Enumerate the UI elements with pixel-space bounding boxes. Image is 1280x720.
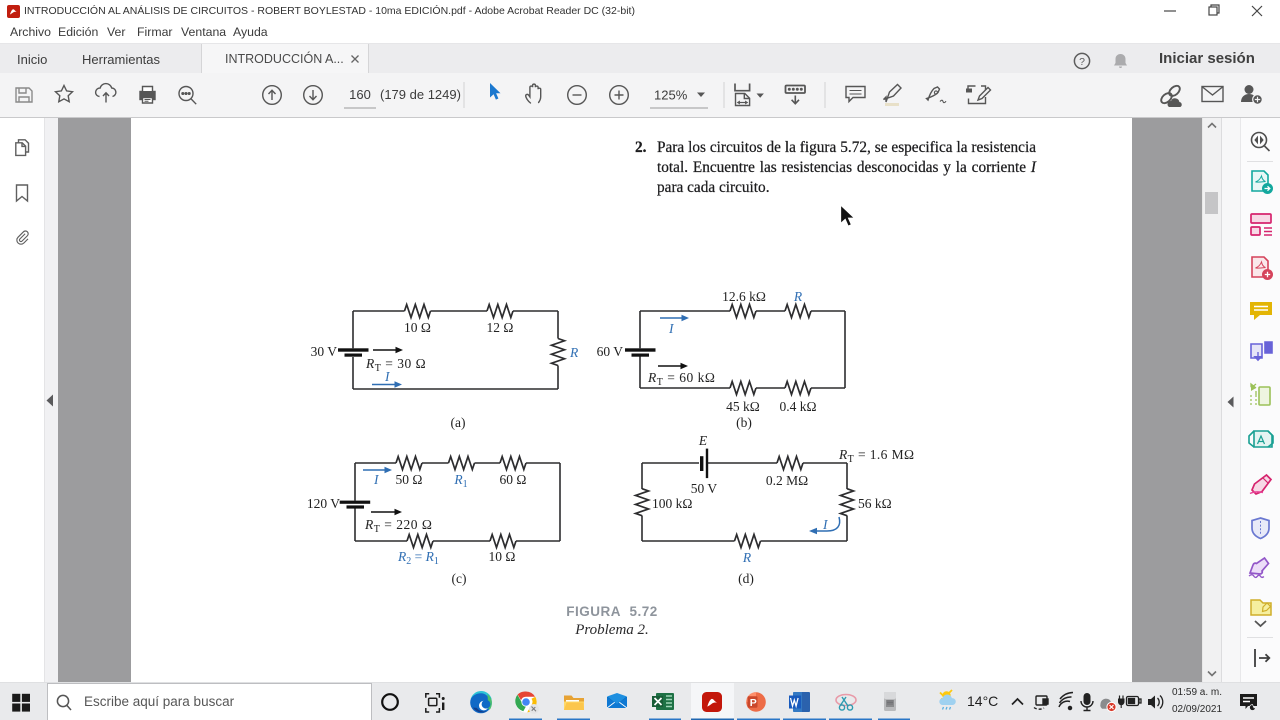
svg-text:I: I: [822, 517, 829, 532]
scan ocr icon: [1249, 431, 1273, 447]
svg-text:I: I: [384, 369, 391, 384]
powerpoint icon: [746, 692, 766, 712]
cloud upload icon: [96, 84, 116, 97]
select cursor (blue): [490, 83, 501, 100]
svg-text:RT = 30 Ω: RT = 30 Ω: [365, 356, 426, 374]
svg-text:(d): (d): [738, 571, 754, 586]
open panel icon: [1255, 649, 1269, 667]
wire right side (b): [844, 311, 846, 388]
search magnifier with dots: [179, 87, 193, 101]
tray mic: [1081, 693, 1093, 711]
svg-text:R: R: [793, 289, 803, 304]
separator: [824, 82, 826, 108]
zoom in circle-plus: [610, 86, 629, 105]
active app underlines: [509, 719, 910, 720]
svg-text:I: I: [373, 472, 380, 487]
resistor 50 ohm (c): [396, 457, 422, 470]
resistor 10 ohm (c): [490, 535, 516, 548]
wire top side (d): [642, 462, 847, 464]
wire left side (d): [641, 463, 643, 541]
svg-text:30 V: 30 V: [311, 344, 338, 359]
resistor 12.6 kohm (b): [730, 305, 756, 318]
explorer folder icon: [564, 696, 584, 711]
start button: [12, 694, 30, 712]
resistor 12 ohm (a): [487, 305, 513, 318]
save icon: [16, 88, 32, 102]
svg-text:60 Ω: 60 Ω: [500, 472, 527, 487]
resistor R (a): [552, 339, 565, 366]
svg-text:R1: R1: [453, 472, 467, 490]
voice recorder icon: [884, 692, 896, 711]
svg-text:45 kΩ: 45 kΩ: [726, 399, 760, 414]
share link-cloud: [1159, 84, 1181, 107]
figure caption: [512, 604, 712, 619]
current arrow blue (b): [660, 317, 684, 319]
organize pages icon: [1251, 342, 1272, 360]
resistor 56 kohm (d): [841, 489, 854, 516]
svg-text:(c): (c): [452, 571, 467, 586]
wire right side (a): [557, 311, 559, 389]
svg-text:0.2 MΩ: 0.2 MΩ: [766, 473, 808, 488]
resistor 45 kohm (b): [730, 382, 756, 395]
tray cast: [1034, 696, 1048, 709]
protect icon: [1252, 518, 1269, 539]
highlighter: [884, 85, 902, 103]
edge icon: [470, 691, 492, 713]
certificates signature icon: [1249, 558, 1269, 577]
resistor 0.2 Mohm (d): [777, 457, 803, 470]
screen recorder icon: [836, 695, 856, 711]
battery E (d): [700, 449, 708, 479]
fill and sign: [968, 86, 986, 104]
wire bottom side (a): [353, 388, 558, 390]
scrolling mode icon: [786, 86, 806, 94]
previous page circle-up: [263, 86, 282, 105]
notification icon: [1240, 694, 1257, 711]
comment bubble: [846, 87, 865, 102]
battery 30 V (a): [338, 348, 369, 356]
resistor 60 ohm (c): [500, 457, 526, 470]
svg-text:50 Ω: 50 Ω: [396, 472, 423, 487]
wire top side (a): [353, 310, 558, 312]
wire top side (b): [640, 310, 845, 312]
current arrow black (c): [371, 511, 397, 513]
fill and sign icon: [1250, 475, 1271, 494]
task view: [426, 694, 445, 712]
wire bottom side (d): [642, 540, 847, 542]
resistor R (b): [785, 305, 811, 318]
mail icon: [607, 693, 627, 708]
weather icon: [939, 690, 955, 710]
zoom tool icon: [1252, 133, 1270, 152]
svg-text:RT = 1.6 MΩ: RT = 1.6 MΩ: [838, 447, 914, 465]
svg-text:10 Ω: 10 Ω: [489, 549, 516, 564]
next page circle-down: [304, 86, 323, 105]
svg-text:56 kΩ: 56 kΩ: [858, 496, 892, 511]
svg-text:10 Ω: 10 Ω: [404, 320, 431, 335]
separator: [463, 82, 465, 108]
svg-text:RT = 60 kΩ: RT = 60 kΩ: [647, 370, 715, 388]
battery 60 V (b): [625, 348, 656, 356]
resistor R2 (c): [407, 535, 433, 548]
tray chevron: [1012, 699, 1023, 705]
search field: [48, 684, 372, 720]
export pdf icon: [1252, 171, 1273, 194]
combine files icon: [1251, 214, 1272, 235]
current arrow blue (a): [372, 384, 397, 386]
wire right side (c): [559, 463, 561, 541]
cortana: [382, 694, 398, 710]
svg-text:(b): (b): [736, 415, 752, 430]
star icon: [55, 86, 72, 102]
signature pen: [927, 87, 940, 100]
word icon: [789, 692, 810, 712]
resistor 0.4 kohm (b): [785, 382, 811, 395]
problem statement text: [627, 137, 1039, 139]
acrobat icon: [702, 692, 722, 712]
svg-text:R2 = R1: R2 = R1: [397, 549, 439, 567]
wire left side (a): [352, 311, 354, 389]
create pdf icon: [1252, 257, 1273, 280]
current arrow blue curved (d): [815, 517, 840, 531]
svg-text:RT = 220 Ω: RT = 220 Ω: [364, 517, 432, 535]
svg-text:0.4 kΩ: 0.4 kΩ: [779, 399, 816, 414]
svg-text:100 kΩ: 100 kΩ: [652, 496, 692, 511]
print icon: [140, 87, 155, 104]
svg-text:60 V: 60 V: [597, 344, 624, 359]
resistor 10 ohm (a): [405, 305, 431, 318]
wire top side (c): [355, 462, 560, 464]
svg-text:E: E: [698, 433, 708, 448]
chrome icon: [515, 691, 539, 714]
svg-text:120 V: 120 V: [307, 496, 340, 511]
tray speaker: [1148, 696, 1163, 709]
svg-text:P: P: [750, 697, 757, 709]
svg-text:50 V: 50 V: [691, 481, 718, 496]
svg-text:12.6 kΩ: 12.6 kΩ: [722, 289, 766, 304]
svg-text:12 Ω: 12 Ω: [487, 320, 514, 335]
svg-text:R: R: [569, 345, 579, 360]
hand tool: [526, 84, 541, 103]
acrobat task highlight: [691, 683, 734, 720]
more tools icon: [1251, 600, 1271, 615]
wire bottom side (c): [355, 540, 560, 542]
envelope: [1202, 87, 1223, 102]
current arrow black (a): [373, 349, 398, 351]
wire bottom side (b): [640, 387, 845, 389]
resistor 100 kohm (d): [636, 489, 649, 516]
resistor R (d): [735, 535, 761, 548]
battery 120 V (c): [340, 501, 371, 509]
zoom out circle-minus: [568, 86, 587, 105]
current arrow blue (c): [363, 469, 387, 471]
compress pdf icon: [1250, 384, 1270, 405]
tray browser blocked: [1100, 699, 1116, 712]
svg-text:R: R: [742, 550, 752, 565]
sign in person: [1241, 85, 1262, 104]
svg-text:I: I: [668, 321, 675, 336]
tray wifi: [1059, 693, 1073, 710]
current arrow black (b): [658, 365, 682, 367]
comment tool icon: [1250, 302, 1272, 320]
mouse cursor: [839, 204, 856, 229]
wire left side (b): [639, 311, 641, 388]
wire right side (d): [846, 463, 848, 541]
page fit icon: [735, 84, 750, 91]
resistor R1 (c): [449, 457, 475, 470]
wire left side (c): [354, 463, 356, 541]
svg-text:(a): (a): [451, 415, 466, 430]
excel icon: [652, 693, 674, 710]
tray battery: [1118, 696, 1141, 709]
separator: [723, 82, 725, 108]
